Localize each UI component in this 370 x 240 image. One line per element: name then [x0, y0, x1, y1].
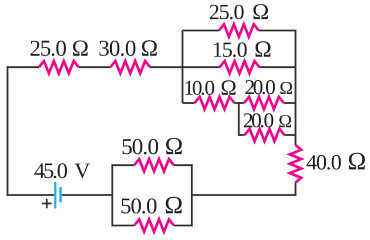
wire top branch left stub: [183, 30, 220, 32]
wire junction down to second 20 ohm branch: [238, 102, 240, 135]
wire from battery negative plate to bottom-left corner: [7, 194, 55, 196]
resistor R2 30.0 ohm (series): [110, 61, 150, 73]
wire bottom segment from corner to 50 ohm bank: [192, 194, 297, 196]
value label 40.0 ohm (R8): [307, 153, 365, 170]
resistor R3 25.0 ohm (top parallel branch): [219, 24, 259, 36]
value label 10.0 ohm (R5): [185, 80, 235, 95]
wire lower branch left stub: [183, 102, 195, 104]
resistor R5 10.0 ohm: [195, 97, 235, 109]
wire 50 ohm bank left edge: [111, 164, 113, 226]
resistor R1 25.0 ohm (series, top left): [39, 61, 79, 73]
wire second 20 ohm branch right stub: [284, 134, 296, 136]
value label 25.0 ohm (R1): [31, 41, 88, 57]
wire node A left edge of parallel bank: [182, 31, 184, 104]
value label 20.0 ohm (R6): [246, 80, 293, 94]
wire 50 ohm bottom branch right stub: [174, 225, 193, 227]
wire top segment from top-left corner to R1: [7, 66, 39, 68]
wire 50 ohm top branch right stub: [174, 164, 193, 166]
resistor R10 50.0 ohm (bottom of parallel pair): [134, 219, 174, 231]
wire left vertical (battery to top-left corner): [7, 66, 9, 196]
resistor R4 15.0 ohm (middle parallel branch): [220, 61, 260, 73]
wire from 50 ohm bank to battery positive plate: [62, 194, 113, 196]
wire lower branch right stub: [284, 102, 297, 104]
battery polarity + sign: [42, 199, 52, 209]
resistor R7 20.0 ohm (parallel with R6): [245, 129, 285, 141]
resistor R8 40.0 ohm (vertical, right side): [290, 145, 302, 183]
wire lower branch stub between R5 and R6: [234, 102, 244, 104]
value label 20.0 ohm (R7): [244, 113, 291, 127]
battery 45.0 V short plate (negative): [59, 187, 62, 202]
value label 50.0 ohm (R10): [122, 197, 182, 214]
resistor R9 50.0 ohm (top of parallel pair): [134, 159, 174, 171]
wire 50 ohm top branch left stub: [111, 164, 134, 166]
wire node B right edge of parallel bank down to R8: [295, 31, 297, 146]
wire second 20 ohm branch left stub: [238, 134, 245, 136]
value label 15.0 ohm (R4): [214, 41, 271, 57]
wire top segment from R2 to node A: [150, 66, 183, 68]
value label 45.0 V (battery): [34, 163, 90, 178]
wire from R8 bottom to bottom-right corner: [295, 183, 297, 196]
resistor R6 20.0 ohm: [244, 97, 284, 109]
wire middle branch right stub: [259, 66, 296, 68]
wire top branch right stub: [259, 30, 297, 32]
value label 30.0 ohm (R2): [99, 40, 156, 56]
wire 50 ohm bank right edge: [191, 164, 193, 226]
wire top segment between R1 and R2: [79, 66, 111, 68]
value label 25.0 ohm (R3): [210, 4, 268, 19]
wire middle branch left stub: [183, 66, 220, 68]
value label 50.0 ohm (R9): [123, 138, 182, 155]
battery 45.0 V long plate (positive): [54, 182, 56, 209]
wire 50 ohm bottom branch left stub: [111, 225, 134, 227]
